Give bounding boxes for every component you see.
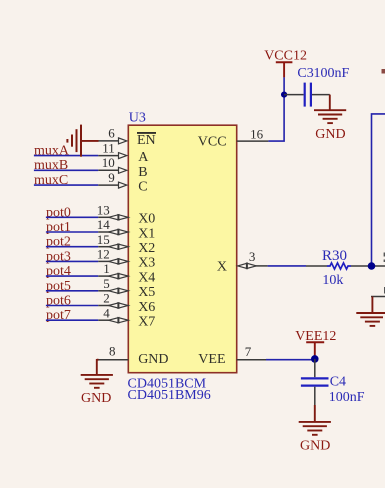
clipped fragment at right edge (mid) (384, 260, 385, 263)
ground at C4 (299, 405, 331, 435)
svg-text:8: 8 (109, 343, 116, 358)
svg-text:X: X (217, 259, 227, 274)
svg-text:VCC: VCC (198, 135, 227, 150)
svg-text:CD4051BM96: CD4051BM96 (128, 388, 211, 403)
svg-text:GND: GND (81, 391, 111, 406)
svg-text:3: 3 (249, 249, 256, 264)
svg-text:GND: GND (138, 352, 168, 367)
svg-text:5: 5 (103, 276, 110, 291)
pin 13 stub with bidirectional arrow (98, 215, 128, 220)
node VCC junction (281, 92, 287, 98)
wire pot0 (46, 216, 98, 218)
wire pin3 to R30 (268, 265, 306, 267)
svg-text:C3: C3 (297, 66, 313, 81)
svg-text:100nF: 100nF (329, 390, 365, 405)
wire pot6 (46, 305, 98, 307)
capacitor C3 (284, 83, 330, 107)
svg-text:X3: X3 (138, 256, 155, 271)
IC U3 body (128, 125, 236, 373)
svg-text:14: 14 (97, 217, 111, 232)
svg-text:4: 4 (103, 305, 110, 320)
clipped fragment at right edge (top) (382, 69, 385, 74)
pin 9 stub with input arrow (98, 182, 127, 188)
pin 4 stub with bidirectional arrow (98, 318, 128, 323)
pin 14 stub with bidirectional arrow (98, 229, 128, 234)
power port VEE12 (295, 329, 336, 359)
pin name EN (with overline) (137, 133, 156, 148)
wire to off-page (right vertical) (372, 114, 385, 266)
svg-text:15: 15 (97, 232, 110, 247)
svg-text:11: 11 (102, 140, 115, 155)
svg-text:X1: X1 (138, 226, 155, 241)
wire pot1 (46, 231, 98, 233)
clipped fragment at right edge (mid upper) (384, 253, 385, 257)
svg-text:X6: X6 (138, 300, 155, 315)
svg-text:A: A (138, 150, 149, 165)
svg-text:X5: X5 (138, 285, 155, 300)
svg-text:6: 6 (108, 126, 115, 141)
node R30 junction (368, 262, 376, 270)
ground symbol at EN pin (rotated 90) (67, 125, 98, 157)
svg-text:1: 1 (103, 261, 110, 276)
ground at right edge (partial) (356, 297, 385, 326)
svg-text:VCC12: VCC12 (264, 48, 307, 63)
svg-text:X4: X4 (138, 270, 155, 285)
node VEE junction (311, 355, 319, 363)
wire pot5 (46, 290, 98, 292)
pin 10 stub with input arrow (98, 167, 127, 173)
svg-text:B: B (138, 165, 147, 180)
pin 8 stub (97, 359, 129, 361)
wire pot4 (46, 275, 98, 277)
wire pot7 (46, 319, 98, 321)
svg-text:12: 12 (97, 247, 110, 262)
wire pin7 to VEE junction (266, 359, 315, 361)
clipped fragment at right edge (lower) (384, 287, 385, 294)
wire muxC (34, 184, 98, 186)
pin 15 stub with bidirectional arrow (98, 244, 128, 249)
pin 16 stub (237, 140, 269, 142)
svg-text:GND: GND (300, 438, 330, 453)
svg-text:13: 13 (97, 202, 110, 217)
wire muxA (34, 155, 98, 157)
pin 7 stub (237, 359, 266, 361)
svg-text:9: 9 (108, 170, 115, 185)
wire pin8 corner (97, 359, 99, 361)
svg-text:X2: X2 (138, 241, 155, 256)
pin 11 stub with input arrow (98, 153, 127, 159)
resistor R30 (306, 263, 385, 269)
svg-text:100nF: 100nF (314, 66, 350, 81)
svg-text:EN: EN (137, 133, 156, 148)
wire VCC net vertical + to pin16 (268, 77, 284, 141)
svg-text:2: 2 (103, 291, 110, 306)
svg-text:X0: X0 (138, 212, 155, 227)
pin 2 stub with bidirectional arrow (98, 303, 128, 308)
power port VCC12 (264, 48, 307, 77)
svg-text:10: 10 (102, 155, 115, 170)
pin 5 stub with bidirectional arrow (98, 288, 128, 293)
wire muxB (34, 169, 98, 171)
svg-text:X7: X7 (138, 315, 155, 330)
svg-text:VEE: VEE (198, 352, 225, 367)
pin 3 stub with bidirectional arrow (238, 263, 268, 268)
svg-text:7: 7 (245, 344, 252, 359)
wire pot3 (46, 260, 98, 262)
capacitor C4 (301, 359, 329, 405)
svg-text:C4: C4 (330, 374, 346, 389)
wire pot2 (46, 246, 98, 248)
wire stub at right edge (371, 296, 385, 298)
ground at C3 (314, 95, 346, 124)
svg-text:R30: R30 (322, 248, 347, 264)
svg-text:U3: U3 (129, 110, 146, 125)
svg-text:16: 16 (250, 126, 264, 141)
pin 1 stub with bidirectional arrow (98, 273, 128, 278)
pin 12 stub with bidirectional arrow (98, 259, 128, 264)
svg-text:10k: 10k (322, 273, 343, 288)
svg-text:GND: GND (315, 127, 345, 142)
svg-text:C: C (138, 180, 147, 195)
ground at pin 8 (81, 359, 113, 388)
pin 6 stub with input arrow (98, 138, 127, 144)
